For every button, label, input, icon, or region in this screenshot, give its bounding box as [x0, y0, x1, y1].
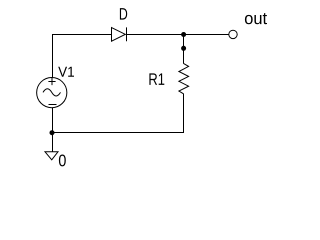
- node out label: [245, 13, 267, 24]
- voltage source V1 circle body: [37, 78, 67, 108]
- resistor R1 label: [149, 73, 164, 85]
- junction dot at top node where R1 branch meets output wire: [181, 32, 186, 37]
- voltage source V1 plus sign: [48, 78, 55, 85]
- wire from resistor R1 bottom lead along bottom to ground node: [52, 94, 184, 133]
- ground net 0 label: [59, 155, 66, 167]
- wire from diode cathode to out terminal: [127, 34, 229, 36]
- junction dot at ground node under V1: [50, 130, 55, 135]
- junction dot at resistor R1 top pin: [181, 46, 186, 51]
- voltage source V1 sine symbol: [43, 89, 61, 96]
- node out terminal circle: [229, 30, 237, 38]
- resistor R1 zigzag body: [179, 63, 189, 93]
- ground symbol triangle: [45, 152, 58, 160]
- voltage source V1 label: [58, 67, 74, 77]
- wire top segment from V1 corner to diode anode: [53, 35, 112, 78]
- wire from top node down to resistor R1 top pin: [183, 35, 185, 64]
- diode D label: [120, 8, 127, 20]
- voltage source V1 minus sign: [49, 104, 57, 106]
- diode D cathode bar: [126, 27, 128, 41]
- diode D triangle (anode): [112, 28, 126, 42]
- wire from V1 bottom pin to ground node and ground stem: [52, 108, 54, 152]
